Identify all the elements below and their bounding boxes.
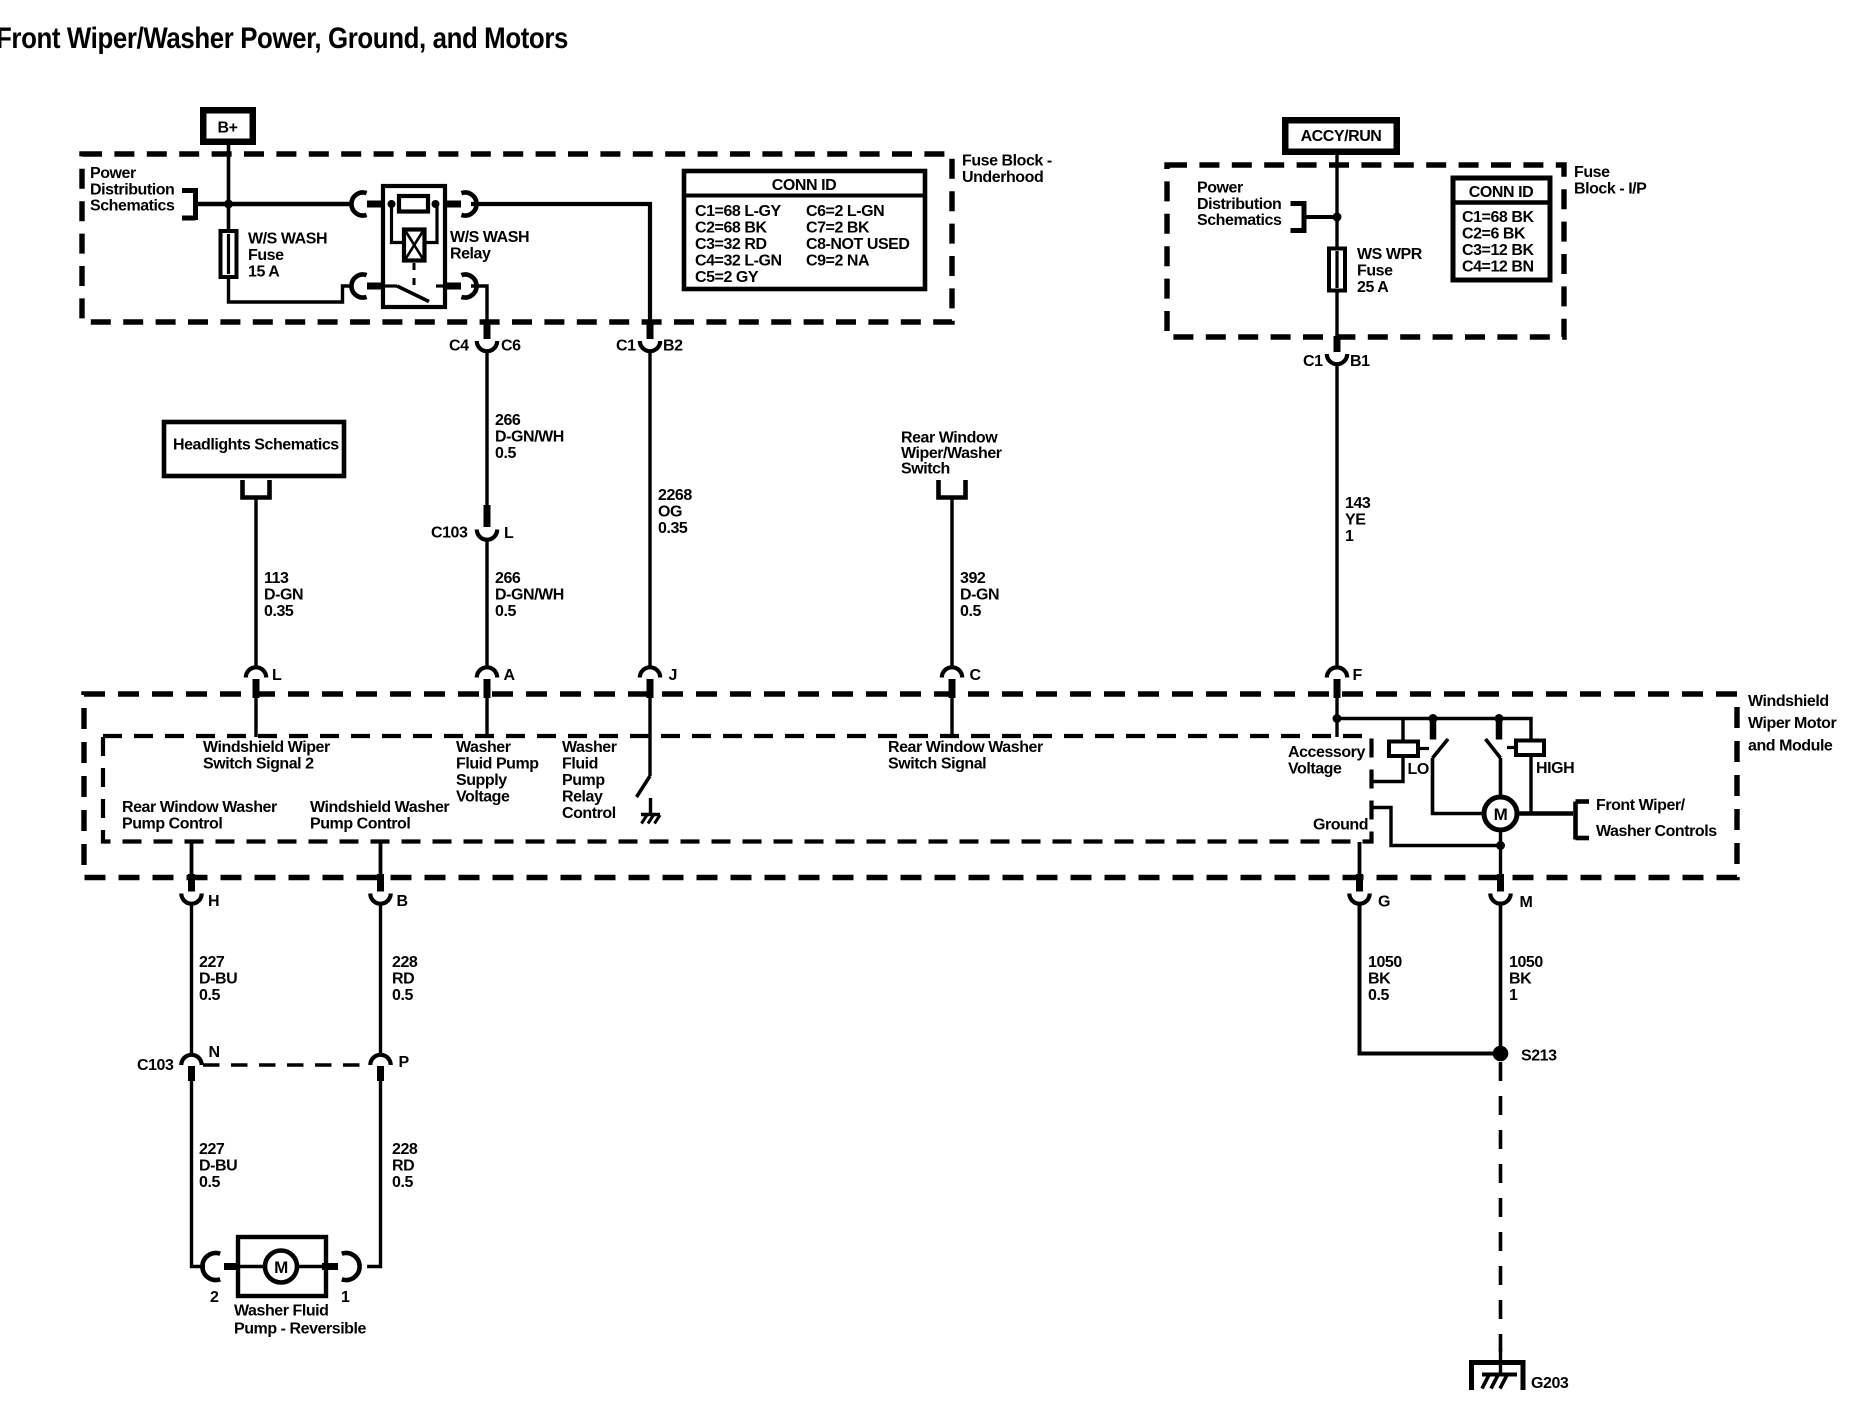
wire: junction to fuse [227,204,231,231]
connector ID table (I/P) [1453,178,1550,280]
wire: pin L into module [254,698,257,737]
svg-text:2: 2 [210,1289,219,1306]
svg-text:C8-NOT USED: C8-NOT USED [806,236,910,253]
link: HIGH coil to contact [1507,746,1516,749]
svg-text:Accessory: Accessory [1288,744,1365,761]
wire through pump [240,1265,324,1268]
svg-text:WS WPR: WS WPR [1357,246,1423,263]
svg-text:B: B [397,893,408,910]
label: Fuse Block - I/P [1574,164,1647,198]
splice S213 [1493,1046,1557,1065]
svg-text:B2: B2 [663,338,683,355]
svg-text:Rear Window: Rear Window [901,430,998,447]
connector pin C (module top) [942,667,982,698]
svg-text:C103: C103 [431,525,468,542]
svg-text:0.5: 0.5 [960,603,981,620]
svg-text:C6=2 L-GN: C6=2 L-GN [806,203,884,220]
svg-text:Windshield Washer: Windshield Washer [310,799,449,816]
label: Windshield Wiper Motor and Module [1748,693,1836,755]
svg-text:H: H [208,893,219,910]
connector C103 pin L [431,505,514,542]
label: Fuse Block - Underhood [962,153,1052,187]
washer fluid pump body [238,1237,326,1296]
fuse W/S WASH 15A [221,231,237,277]
relay W/S WASH: socket contact pin3 left bottom [351,275,366,298]
wire: pin A into module [485,698,488,737]
wire: relay pin5 to connector C4/C6 [471,286,487,322]
ground symbol (internal, pump relay control) [641,798,660,824]
bracket under Rear Window Wiper/Washer Switch [939,480,966,498]
wire: bracket to ACCY wire [1304,215,1337,219]
wire: ground return to Ground pin [1373,808,1501,846]
wire: pin J to relay-control switch [648,698,651,776]
bracket: Front Wiper/Washer Controls [1576,802,1590,840]
svg-text:1: 1 [1509,987,1518,1004]
module internal dashed boundary [103,736,1372,842]
svg-text:266: 266 [495,570,521,587]
svg-text:Wiper Motor: Wiper Motor [1748,715,1836,732]
svg-text:C: C [970,667,982,684]
svg-text:Power: Power [90,165,136,182]
svg-text:D-GN: D-GN [264,587,303,604]
power symbol ACCY/RUN [1282,117,1400,155]
pin label: Accessory Voltage [1288,744,1365,778]
svg-text:D-GN: D-GN [960,587,999,604]
connector pin F (module top) [1327,667,1363,698]
svg-text:G203: G203 [1531,1375,1569,1392]
svg-text:Front Wiper/Washer Power, Grou: Front Wiper/Washer Power, Ground, and Mo… [0,22,568,55]
relay W/S WASH: coil loop right [424,204,437,243]
wire: LO contact to motor [1433,758,1486,814]
svg-text:Washer: Washer [456,739,511,756]
value label: circuit 228 upper [392,954,418,1004]
wire: bus to LO relay coil [1401,719,1404,742]
svg-text:Fuse: Fuse [1357,263,1393,280]
svg-text:Fuse: Fuse [1574,164,1610,181]
svg-text:BK: BK [1368,971,1391,988]
svg-text:J: J [669,667,677,684]
connector C103 body (dashed tie N-P) [203,1063,369,1067]
svg-text:Relay: Relay [562,789,603,806]
wire: S213 to G203 (unlabeled/dashed) [1499,1062,1503,1352]
svg-text:C4=32 L-GN: C4=32 L-GN [695,253,782,270]
svg-text:Rear Window Washer: Rear Window Washer [122,799,277,816]
switch: LO speed contact [1433,721,1449,758]
Fuse Block - I/P module box [1167,165,1564,337]
svg-text:Block - I/P: Block - I/P [1574,181,1647,198]
relay W/S WASH: coil loop left [392,204,405,243]
wire 113 D-GN 0.35 [254,499,257,668]
svg-text:266: 266 [495,412,521,429]
connector C1/B1 [1303,336,1370,370]
reference box: Headlights Schematics [164,422,344,476]
washer fluid pump contact 1 (right) [322,1253,360,1280]
connector ID table (underhood) [684,171,925,289]
svg-text:0.5: 0.5 [199,1174,220,1191]
reference label: Power Distribution Schematics (right) [1197,180,1282,230]
relay W/S WASH: socket contact pin5 right bottom [461,275,476,298]
bracket: power distribution reference (left) [182,188,196,220]
svg-text:2268: 2268 [658,487,692,504]
svg-text:Ground: Ground [1313,817,1368,834]
wire 266 D-GN/WH 0.5 (lower) [485,540,488,668]
svg-text:W/S WASH: W/S WASH [248,231,327,248]
svg-text:Switch: Switch [901,461,950,478]
relay W/S WASH: resistor bar [399,196,428,212]
wire: HIGH coil to motor wire [1529,756,1532,814]
wire 1050 BK 1 [1499,904,1503,1054]
wire: motor to Front Wiper/Washer Controls [1517,811,1573,815]
svg-text:0.5: 0.5 [495,445,516,462]
svg-text:C5=2 GY: C5=2 GY [695,269,759,286]
fuse WS WPR 25A [1329,249,1345,291]
svg-text:227: 227 [199,1141,225,1158]
pin label: Washer Fluid Pump Supply Voltage [456,739,539,806]
connector pin M (module bottom) [1490,874,1532,911]
svg-text:D-BU: D-BU [199,971,237,988]
svg-text:1: 1 [1345,528,1354,545]
connector C4/C6 [449,322,521,355]
connector pin J (module top) [640,667,677,698]
svg-text:Supply: Supply [456,772,507,789]
svg-text:0.5: 0.5 [1368,987,1389,1004]
svg-text:HIGH: HIGH [1536,760,1574,777]
relay W/S WASH: coil (solenoid box with X) [404,230,425,261]
svg-text:C3=32 RD: C3=32 RD [695,236,767,253]
motor M1 windshield wiper motor [1484,797,1517,830]
svg-text:Underhood: Underhood [962,169,1043,186]
svg-text:C7=2 BK: C7=2 BK [806,220,870,237]
junction: motor ground splice [1496,841,1505,850]
reference label: Rear Window Wiper/Washer Switch [901,430,1002,478]
value label: circuit 143 [1345,495,1371,545]
svg-text:CONN ID: CONN ID [1469,184,1533,201]
wire: splice to M pin [1499,846,1502,877]
wire: fuse to C1/B1 [1335,292,1338,337]
connector C103 pin N [137,1044,220,1081]
svg-text:C9=2 NA: C9=2 NA [806,253,870,270]
svg-text:227: 227 [199,954,225,971]
wire 227 D-BU 0.5 (lower) [192,1081,206,1267]
svg-text:15 A: 15 A [248,264,280,281]
svg-text:LO: LO [1408,761,1429,778]
relay W/S WASH: socket contact pin1 left [351,193,366,216]
value label: circuit 392 [960,570,999,620]
wire: Rear Window Washer Pump Control to H [190,842,194,876]
value label: circuit 1050 BK 0.5 [1368,954,1402,1004]
svg-text:BK: BK [1509,971,1532,988]
svg-text:Pump: Pump [562,772,605,789]
svg-text:1050: 1050 [1509,954,1543,971]
wire: fuse to relay pin 3 [229,278,352,302]
svg-text:1: 1 [341,1289,350,1306]
svg-text:M: M [1494,805,1508,824]
wire 1050 BK 0.5 [1360,904,1494,1054]
reference label: Front Wiper/Washer Controls [1596,797,1717,840]
wire 143 YE 1 [1335,365,1338,668]
svg-text:Pump Control: Pump Control [310,816,410,833]
relay W/S WASH: actuator dashed link [413,263,416,285]
value label: W/S WASH Fuse 15 A [248,231,327,281]
svg-text:Distribution: Distribution [90,181,174,198]
pin label: Windshield Washer Pump Control [310,799,449,833]
svg-text:M: M [1520,894,1533,911]
connector pin B (module bottom) [370,874,407,910]
wire: pin F accessory feed [1335,698,1338,737]
relay coil LO [1389,742,1418,757]
wire 392 D-GN 0.5 [950,499,953,668]
svg-text:Fluid: Fluid [562,756,598,773]
svg-text:P: P [399,1054,410,1071]
value label: circuit 227 upper [199,954,237,1004]
label: Washer Fluid Pump - Reversible [234,1303,367,1338]
connector C1/B2 [616,322,683,355]
svg-text:C2=68 BK: C2=68 BK [695,220,767,237]
wire: LO coil to module boundary [1373,757,1403,782]
value label: circuit 1050 BK 1 [1509,954,1543,1004]
relay node pin2 internal [432,200,440,208]
svg-text:B1: B1 [1350,353,1370,370]
svg-text:C4=12 BN: C4=12 BN [1462,259,1534,276]
pin label: Windshield Wiper Switch Signal 2 [203,739,330,773]
ground G203 [1472,1348,1569,1392]
svg-text:L: L [504,525,514,542]
svg-text:0.5: 0.5 [199,987,220,1004]
svg-text:N: N [209,1044,220,1061]
svg-text:Headlights Schematics: Headlights Schematics [173,437,339,454]
value label: circuit 113 [264,570,303,620]
wire: ACCY/RUN into fuse block [1335,155,1338,219]
pin label: Washer Fluid Pump Relay Control [562,739,617,822]
link: LO coil to contact [1420,747,1429,750]
svg-text:D-GN/WH: D-GN/WH [495,587,564,604]
svg-text:CONN ID: CONN ID [772,177,836,194]
svg-text:C1=68 L-GY: C1=68 L-GY [695,203,782,220]
Windshield Wiper Motor and Module outer box [84,694,1737,878]
wire: bus from bracket to relay pin 1 (y=204) [196,202,352,207]
svg-text:Relay: Relay [450,246,491,263]
svg-text:ACCY/RUN: ACCY/RUN [1301,128,1382,145]
svg-text:0.35: 0.35 [658,520,688,537]
svg-text:RD: RD [392,971,414,988]
value label: circuit 266 [495,412,564,462]
wire: junction to WS WPR fuse [1335,217,1338,248]
svg-text:C1: C1 [616,338,636,355]
svg-text:Front Wiper/: Front Wiper/ [1596,797,1686,814]
svg-text:C1=68 BK: C1=68 BK [1462,209,1534,226]
junction: accessory bus at F [1333,714,1342,723]
value label: circuit 266 lower [495,570,564,620]
svg-text:1050: 1050 [1368,954,1402,971]
wire: accessory bus [1337,719,1531,741]
svg-text:392: 392 [960,570,986,587]
svg-text:Switch Signal 2: Switch Signal 2 [203,756,314,773]
svg-text:Washer Fluid: Washer Fluid [234,1303,328,1320]
wire 227 D-BU 0.5 (upper) [190,904,193,1054]
svg-text:0.5: 0.5 [392,987,413,1004]
svg-text:0.5: 0.5 [495,603,516,620]
svg-text:D-GN/WH: D-GN/WH [495,429,564,446]
bracket under Headlights Schematics [243,480,270,498]
connector pin A (module top) [477,667,516,698]
svg-text:B+: B+ [218,120,238,137]
connector pin H (module bottom) [181,874,219,910]
washer fluid pump contact 2 (left) [202,1253,240,1280]
wire 228 RD 0.5 (lower) [367,1081,381,1267]
svg-text:Schematics: Schematics [90,198,175,215]
pin label: Rear Window Washer Pump Control [122,799,277,833]
wire: Windshield Washer Pump Control to B [379,842,383,876]
svg-text:Windshield: Windshield [1748,693,1829,710]
switch: washer fluid pump relay control (blade) [637,776,651,797]
svg-text:Windshield Wiper: Windshield Wiper [203,739,330,756]
svg-text:F: F [1353,667,1363,684]
svg-text:C2=6 BK: C2=6 BK [1462,226,1526,243]
wire 228 RD 0.5 (upper) [379,904,382,1054]
svg-text:25 A: 25 A [1357,279,1389,296]
svg-text:G: G [1378,894,1390,911]
wire: B+ to junction [227,145,231,204]
svg-text:D-BU: D-BU [199,1158,237,1175]
svg-text:C3=12 BK: C3=12 BK [1462,242,1534,259]
svg-text:Fuse Block -: Fuse Block - [962,153,1052,170]
svg-text:Schematics: Schematics [1197,212,1282,229]
wire: Ground pin to G [1358,842,1362,876]
value label: circuit 2268 [658,487,692,537]
power symbol B+ [200,107,256,145]
svg-text:M: M [274,1258,288,1277]
junction: LO switch tap [1429,714,1438,723]
relay coil HIGH [1516,741,1544,756]
svg-text:OG: OG [658,504,682,521]
connector C103 pin P [370,1054,409,1081]
svg-text:C103: C103 [137,1057,174,1074]
svg-text:228: 228 [392,954,418,971]
junction: B+ / fuse tap [224,200,233,209]
svg-text:Voltage: Voltage [456,789,510,806]
svg-text:Fuse: Fuse [248,247,284,264]
value label: circuit 227 lower [199,1141,237,1191]
wire: pin C into module [950,698,953,737]
wire: motor to ground splice [1499,830,1502,846]
svg-text:C1: C1 [1303,353,1323,370]
svg-text:C6: C6 [501,338,521,355]
svg-text:RD: RD [392,1158,414,1175]
relay W/S WASH: socket contact pin2 right [461,193,476,216]
svg-text:W/S WASH: W/S WASH [450,229,529,246]
wire: relay pin2 to connector C1/B2 [471,204,650,322]
svg-text:Pump - Reversible: Pump - Reversible [234,1321,367,1338]
wire: HIGH contact to motor top [1499,758,1503,798]
wire 2268 OG 0.35 [648,352,651,668]
svg-text:Washer: Washer [562,739,617,756]
svg-text:0.35: 0.35 [264,603,294,620]
switch: HIGH speed contact [1486,721,1501,758]
svg-text:Power: Power [1197,180,1243,197]
junction: accessory feed tap [1333,213,1342,222]
svg-text:0.5: 0.5 [392,1174,413,1191]
svg-text:Washer Controls: Washer Controls [1596,823,1717,840]
svg-text:Switch Signal: Switch Signal [888,756,986,773]
svg-text:Voltage: Voltage [1288,761,1342,778]
junction: HIGH switch tap [1495,714,1504,723]
svg-text:Fluid Pump: Fluid Pump [456,756,539,773]
motor M2 washer fluid pump [265,1251,297,1283]
svg-text:228: 228 [392,1141,418,1158]
wire 266 D-GN/WH 0.5 (upper) [485,352,488,508]
connector pin G (module bottom) [1349,874,1390,911]
relay node pin1 internal [388,200,396,208]
value label: WS WPR Fuse 25 A [1357,246,1423,296]
reference label: Power Distribution Schematics (left) [90,165,175,215]
svg-text:Rear Window Washer: Rear Window Washer [888,739,1043,756]
svg-text:C4: C4 [449,338,469,355]
svg-text:Wiper/Washer: Wiper/Washer [901,445,1002,462]
connector pin L (module top) [246,667,282,698]
svg-text:Pump Control: Pump Control [122,816,222,833]
svg-text:143: 143 [1345,495,1371,512]
relay W/S WASH body [383,186,445,307]
Fuse Block - Underhood module box [82,154,952,322]
svg-text:Distribution: Distribution [1197,196,1281,213]
pin label: Rear Window Washer Switch Signal [888,739,1043,773]
svg-text:Control: Control [562,805,616,822]
svg-text:YE: YE [1345,512,1366,529]
svg-text:A: A [504,667,516,684]
bracket: power distribution reference (right) [1291,201,1305,233]
svg-text:S213: S213 [1521,1048,1557,1065]
value label: circuit 228 lower [392,1141,418,1191]
svg-text:113: 113 [264,570,289,587]
svg-text:and Module: and Module [1748,738,1833,755]
label: W/S WASH Relay [450,229,529,263]
relay W/S WASH: switch blade (pin3 to pin5, open) [384,286,444,302]
svg-text:L: L [272,667,282,684]
